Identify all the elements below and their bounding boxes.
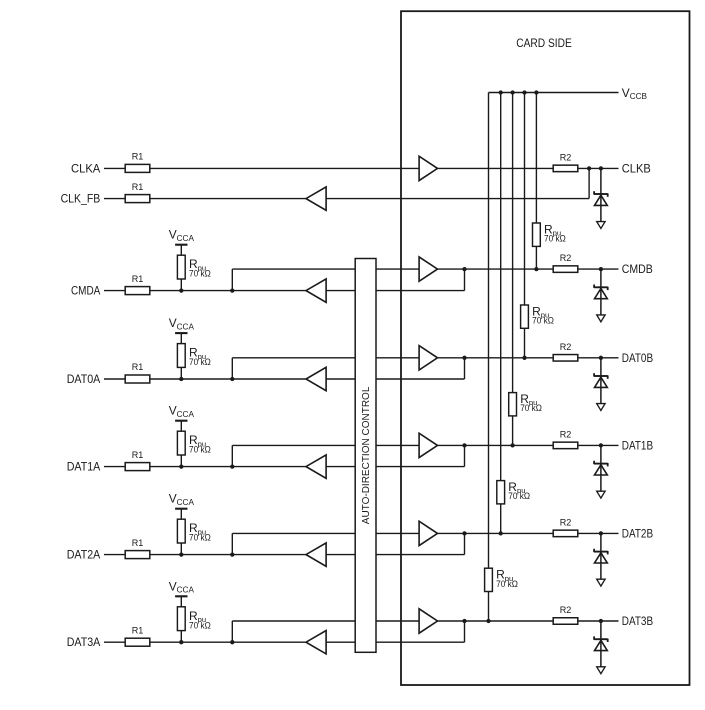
svg-text:70 kΩ: 70 kΩ (189, 620, 211, 630)
wire VCCB bus to CMDB pull-up (535, 93, 537, 224)
ground (DAT2B ESD) (597, 579, 605, 586)
node CLKB (622, 162, 651, 175)
auto-direction control block (355, 259, 376, 653)
svg-text:R1: R1 (132, 274, 144, 284)
resistor Rpu 70k (DAT0A) (177, 344, 211, 368)
wire R2 to CLKB pin (578, 167, 619, 169)
junction CMDA branch (230, 288, 234, 292)
wire Rpu to DAT2B line (500, 504, 502, 534)
wire R2 to CMDB pin (578, 268, 619, 270)
wire Rpu to DAT3A line (180, 631, 182, 643)
wire CMDA to R1 (104, 290, 125, 292)
buffer DAT3 A-to-B (419, 609, 437, 633)
buffer DAT2 B-to-A (306, 543, 326, 566)
svg-text:CLKA: CLKA (71, 162, 100, 175)
node DAT2A (67, 549, 101, 562)
wire VCCB bus to DAT3B pull-up (488, 93, 490, 569)
wire DAT0A line to left buffer output (150, 378, 306, 380)
svg-text:CARD SIDE: CARD SIDE (516, 37, 572, 50)
diode ESD zener (DAT2B) (594, 533, 608, 579)
junction CLKB diode tap (599, 166, 603, 170)
svg-text:R1: R1 (132, 538, 144, 548)
resistor R1 (CLK_FB) (125, 182, 150, 203)
junction VCCB rail / CMDB bus (534, 90, 538, 94)
diode ESD zener (DAT0B) (594, 358, 608, 404)
resistor R1 (DAT1A) (125, 450, 150, 471)
wire buffer output to R2 (438, 532, 554, 534)
node DAT0B (622, 352, 653, 365)
wire buffer output to R2 (438, 268, 554, 270)
svg-text:DAT2B: DAT2B (622, 527, 653, 540)
resistor Rpu 70k (CMDB) (533, 222, 567, 246)
wire VCCB bus to DAT2B pull-up (500, 93, 502, 481)
wire CLK_FB to R1 (104, 198, 306, 200)
svg-text:DAT2A: DAT2A (67, 549, 101, 562)
wire R2 to DAT0B pin (578, 357, 619, 359)
wire DAT2B tap down to left buffer input (326, 533, 464, 554)
junction DAT1A branch (230, 464, 234, 468)
wire Rpu to DAT3B line (488, 592, 490, 622)
power VCCB rail (489, 92, 619, 94)
junction Rpu / DAT3B line (486, 619, 490, 623)
buffer DAT0 A-to-B (419, 346, 437, 370)
wire DAT1B tap down to left buffer input (326, 445, 464, 466)
svg-text:70 kΩ: 70 kΩ (189, 269, 211, 279)
label AUTO-DIRECTION CONTROL (361, 386, 372, 524)
svg-text:R1: R1 (132, 450, 144, 460)
wire R2 to DAT3B pin (578, 620, 619, 622)
resistor R2 (DAT1B) (553, 429, 578, 448)
svg-text:DAT3A: DAT3A (67, 636, 101, 649)
buffer DAT1 A-to-B (419, 433, 437, 457)
wire DAT0A to R1 (104, 378, 125, 380)
diode ESD zener (DAT1B) (594, 445, 608, 491)
power VCCA (DAT2A) (169, 492, 195, 520)
node CLKA (71, 162, 100, 175)
node DAT2B (622, 527, 653, 540)
svg-text:R2: R2 (560, 605, 572, 615)
svg-text:DAT1B: DAT1B (622, 439, 653, 452)
svg-text:70 kΩ: 70 kΩ (520, 403, 542, 413)
wire Rpu to DAT1A line (180, 455, 182, 467)
junction CMDB return tap (462, 267, 466, 271)
resistor Rpu 70k (DAT0B) (521, 304, 555, 328)
wire DAT0B tap down to left buffer input (326, 358, 464, 379)
resistor Rpu 70k (DAT1B) (509, 392, 543, 416)
junction VCCB rail / DAT0B bus (522, 90, 526, 94)
resistor Rpu 70k (CMDA) (177, 255, 211, 279)
node DAT1B (622, 439, 653, 452)
power VCCA (DAT3A) (169, 579, 195, 607)
buffer DAT2 A-to-B (419, 521, 437, 545)
buffer DAT1 B-to-A (306, 455, 326, 478)
svg-text:AUTO-DIRECTION CONTROL: AUTO-DIRECTION CONTROL (361, 386, 372, 524)
svg-text:DAT3B: DAT3B (622, 615, 653, 628)
junction DAT2B diode tap (599, 531, 603, 535)
resistor R2 (CMDB) (553, 253, 578, 272)
wire DAT0A branch up to buffer input (232, 358, 419, 379)
svg-text:70 kΩ: 70 kΩ (189, 357, 211, 367)
resistor R2 (CLKB) (553, 152, 578, 171)
wire Rpu to CMDA line (180, 279, 182, 291)
svg-text:CMDB: CMDB (622, 263, 653, 276)
node CMDA (71, 285, 100, 298)
diode ESD zener (CLKB) (594, 168, 608, 221)
resistor Rpu 70k (DAT3A) (177, 607, 211, 631)
svg-text:DAT0A: DAT0A (67, 373, 101, 386)
wire Rpu to DAT0B line (524, 328, 526, 358)
node CLK_FB (61, 193, 101, 206)
svg-text:R1: R1 (132, 362, 144, 372)
node DAT0A (67, 373, 101, 386)
wire DAT1A to R1 (104, 466, 125, 468)
ground (DAT3B ESD) (597, 667, 605, 674)
wire DAT3A branch up to buffer input (232, 621, 419, 642)
junction VCCB rail / DAT2B bus (499, 90, 503, 94)
wire DAT1A line to left buffer output (150, 466, 306, 468)
svg-text:70 kΩ: 70 kΩ (544, 234, 566, 244)
resistor R1 (CLKA) (125, 152, 150, 173)
diode ESD zener (CMDB) (594, 269, 608, 315)
junction DAT2A branch (230, 552, 234, 556)
svg-text:R1: R1 (132, 182, 144, 192)
wire buffer output to R2 (438, 620, 554, 622)
junction DAT1B return tap (462, 443, 466, 447)
resistor R2 (DAT3B) (553, 605, 578, 624)
wire buffer output to R2 (438, 444, 554, 446)
junction VCCB rail / DAT1B bus (510, 90, 514, 94)
junction DAT2B return tap (462, 531, 466, 535)
node DAT3A (67, 636, 101, 649)
junction DAT0A branch (230, 377, 234, 381)
buffer CLK A-to-B (419, 156, 437, 180)
svg-text:CLK_FB: CLK_FB (61, 193, 101, 206)
wire CLK_FB vertical from CLKB (588, 168, 590, 198)
junction Rpu / DAT1B line (510, 443, 514, 447)
buffer DAT3 B-to-A (306, 631, 326, 654)
resistor R1 (DAT3A) (125, 625, 150, 646)
junction Rpu / DAT2B line (499, 531, 503, 535)
junction Rpu / DAT0B line (522, 356, 526, 360)
svg-text:R2: R2 (560, 253, 572, 263)
svg-text:70 kΩ: 70 kΩ (508, 491, 530, 501)
buffer CMD B-to-A (306, 279, 326, 302)
resistor Rpu 70k (DAT2B) (497, 480, 531, 504)
svg-text:70 kΩ: 70 kΩ (496, 579, 518, 589)
wire buffer output to R2 (438, 357, 554, 359)
junction Rpu / DAT3A line (179, 640, 183, 644)
wire R1 to buffer input (150, 167, 419, 169)
svg-text:DAT1A: DAT1A (67, 461, 101, 474)
ground (DAT0B ESD) (597, 404, 605, 411)
label CARD SIDE (516, 37, 572, 50)
wire buffer output to R2 (438, 167, 554, 169)
svg-text:70 kΩ: 70 kΩ (532, 316, 554, 326)
junction DAT3B return tap (462, 619, 466, 623)
wire DAT3A to R1 (104, 641, 125, 643)
wire R2 to DAT1B pin (578, 444, 619, 446)
power VCCA (DAT1A) (169, 404, 195, 432)
ground (CLKB ESD) (597, 222, 605, 229)
wire Rpu to DAT1B line (512, 416, 514, 446)
junction Rpu / CMDB line (534, 267, 538, 271)
svg-text:R1: R1 (132, 625, 144, 635)
junction DAT0B return tap (462, 356, 466, 360)
ground (CMDB ESD) (597, 315, 605, 322)
junction Rpu / CMDA line (179, 288, 183, 292)
node CMDB (622, 263, 653, 276)
node DAT3B (622, 615, 653, 628)
svg-text:R1: R1 (132, 152, 144, 162)
junction CMDB diode tap (599, 267, 603, 271)
junction CLK_FB tap (587, 166, 591, 170)
junction DAT1B diode tap (599, 443, 603, 447)
resistor Rpu 70k (DAT3B) (485, 568, 519, 592)
svg-text:R2: R2 (560, 152, 572, 162)
resistor Rpu 70k (DAT2A) (177, 519, 211, 543)
svg-text:R2: R2 (560, 342, 572, 352)
svg-text:CMDA: CMDA (71, 285, 100, 298)
junction Rpu / DAT1A line (179, 464, 183, 468)
svg-text:R2: R2 (560, 517, 572, 527)
diode ESD zener (DAT3B) (594, 621, 608, 667)
wire CMDB tap down to left buffer input (326, 269, 464, 291)
wire Rpu to DAT0A line (180, 367, 182, 379)
buffer CMD A-to-B (419, 257, 437, 281)
resistor R1 (DAT2A) (125, 538, 150, 559)
wire Rpu to DAT2A line (180, 543, 182, 555)
power VCCA (DAT0A) (169, 316, 195, 344)
card side box (401, 11, 690, 685)
junction DAT3B diode tap (599, 619, 603, 623)
wire DAT3A line to left buffer output (150, 641, 306, 643)
junction DAT3A branch (230, 640, 234, 644)
node DAT1A (67, 461, 101, 474)
wire VCCB bus to DAT1B pull-up (512, 93, 514, 393)
resistor R1 (DAT0A) (125, 362, 150, 383)
ground (DAT1B ESD) (597, 491, 605, 498)
wire DAT2A branch up to buffer input (232, 533, 419, 554)
buffer CLK feedback B-to-A (306, 187, 326, 210)
wire CLKA to R1 (104, 167, 125, 169)
junction DAT0B diode tap (599, 356, 603, 360)
junction Rpu / DAT0A line (179, 377, 183, 381)
svg-text:CLKB: CLKB (622, 162, 651, 175)
resistor R1 (CMDA) (125, 274, 150, 295)
resistor Rpu 70k (DAT1A) (177, 431, 211, 455)
wire DAT3B tap down to left buffer input (326, 621, 464, 642)
junction Rpu / DAT2A line (179, 552, 183, 556)
svg-text:70 kΩ: 70 kΩ (189, 533, 211, 543)
wire Rpu to CMDB line (535, 246, 537, 269)
wire CMDA line to left buffer output (150, 290, 306, 292)
wire R2 to DAT2B pin (578, 532, 619, 534)
wire CLK_FB return (326, 198, 589, 200)
svg-text:R2: R2 (560, 429, 572, 439)
svg-text:DAT0B: DAT0B (622, 352, 653, 365)
resistor R2 (DAT2B) (553, 517, 578, 536)
wire CMDA branch up to buffer input (232, 269, 419, 291)
wire DAT2A line to left buffer output (150, 554, 306, 556)
buffer DAT0 B-to-A (306, 367, 326, 390)
power VCCA (CMDA) (169, 228, 195, 256)
node VCCB (622, 86, 648, 101)
wire DAT1A branch up to buffer input (232, 445, 419, 466)
resistor R2 (DAT0B) (553, 342, 578, 361)
wire VCCB bus to DAT0B pull-up (524, 93, 526, 306)
wire DAT2A to R1 (104, 554, 125, 556)
svg-text:70 kΩ: 70 kΩ (189, 445, 211, 455)
